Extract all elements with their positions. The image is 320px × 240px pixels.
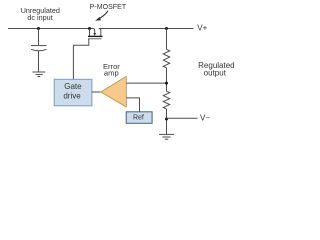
svg-text:amp: amp: [104, 69, 119, 78]
wire divider bottom lead: [166, 109, 168, 134]
op-amp error amp: [101, 76, 127, 107]
svg-text:V+: V+: [197, 24, 207, 33]
channel bar: [88, 35, 103, 37]
wire error amp output to gate drive: [92, 91, 101, 93]
wire V-: [167, 117, 198, 119]
wire top rail left segment: [8, 28, 93, 30]
wire ref input: [126, 98, 139, 112]
wire inverting input to divider: [126, 82, 166, 84]
wire gate lead to gate drive: [73, 39, 88, 80]
svg-text:dc input: dc input: [27, 13, 52, 22]
source lead: [89, 29, 91, 37]
node output bottom junction: [165, 118, 168, 121]
node mosfet source junction: [88, 27, 91, 30]
label pointer arrow: [95, 11, 108, 21]
gate drive box U1: [54, 79, 92, 106]
svg-text:P-MOSFET: P-MOSFET: [90, 4, 127, 11]
transistor Q1 P-MOSFET: [88, 29, 103, 39]
wire divider middle lead: [166, 68, 168, 91]
resistor R2: [163, 91, 169, 109]
Ref box U2: [126, 112, 152, 124]
svg-text:output: output: [204, 69, 227, 78]
node divider top junction: [165, 27, 168, 30]
ground right: [159, 134, 174, 139]
svg-text:Gate: Gate: [64, 82, 82, 91]
node divider mid junction: [165, 82, 168, 85]
svg-text:V−: V−: [200, 113, 210, 122]
wire top rail right segment: [99, 28, 194, 30]
node input junction: [37, 27, 40, 30]
ground left: [33, 72, 46, 77]
capacitor C1: [31, 29, 47, 72]
wire divider upper lead: [166, 29, 168, 50]
resistor R1: [163, 49, 169, 68]
svg-text:drive: drive: [63, 91, 81, 100]
drain lead: [99, 29, 101, 37]
substrate arrow: [93, 29, 95, 34]
svg-text:Ref: Ref: [133, 115, 144, 122]
gate plate: [88, 38, 102, 40]
